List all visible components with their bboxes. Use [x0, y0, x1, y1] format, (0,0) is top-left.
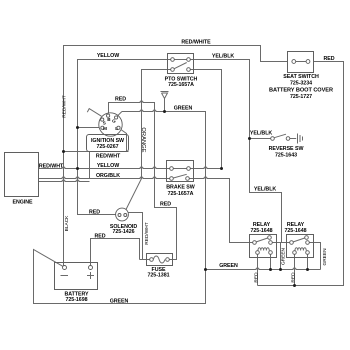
svg-text:ENGINE: ENGINE — [12, 200, 33, 206]
svg-text:GREEN: GREEN — [110, 298, 129, 304]
svg-text:725-0267: 725-0267 — [97, 144, 119, 150]
svg-text:YEL/BLK: YEL/BLK — [250, 130, 273, 136]
svg-text:L: L — [115, 126, 118, 131]
svg-text:YEL/BLK: YEL/BLK — [254, 187, 277, 193]
svg-text:SEAT SWITCH: SEAT SWITCH — [283, 74, 319, 80]
svg-text:725-1727: 725-1727 — [290, 94, 312, 100]
svg-text:M: M — [103, 126, 107, 131]
svg-text:RED: RED — [160, 202, 171, 208]
svg-text:725-1643: 725-1643 — [275, 152, 297, 158]
svg-text:YEL/BLK: YEL/BLK — [212, 53, 235, 59]
svg-text:YELLOW: YELLOW — [97, 163, 119, 169]
svg-text:725-1426: 725-1426 — [113, 229, 135, 235]
svg-text:RED/WHT: RED/WHT — [39, 163, 64, 169]
svg-text:RED: RED — [89, 210, 100, 216]
svg-text:BATTERY BOOT COVER: BATTERY BOOT COVER — [269, 88, 333, 94]
svg-text:725-1698: 725-1698 — [66, 297, 88, 303]
svg-text:YELLOW: YELLOW — [97, 53, 119, 59]
svg-text:RED: RED — [290, 272, 296, 283]
svg-text:G: G — [112, 119, 116, 124]
svg-text:RED: RED — [94, 234, 105, 240]
svg-text:725-1648: 725-1648 — [251, 228, 273, 234]
svg-text:REVERSE SW: REVERSE SW — [269, 146, 304, 152]
svg-text:BLACK: BLACK — [64, 215, 70, 232]
svg-text:RED: RED — [253, 272, 259, 283]
svg-text:BRAKE SW: BRAKE SW — [166, 184, 194, 190]
svg-text:725-3234: 725-3234 — [290, 81, 312, 87]
svg-text:GREEN: GREEN — [322, 248, 328, 266]
svg-text:S: S — [103, 120, 106, 125]
svg-text:725-1657A: 725-1657A — [168, 191, 194, 197]
svg-text:RED: RED — [115, 96, 126, 102]
svg-text:725-1381: 725-1381 — [148, 272, 170, 278]
svg-text:RED/WHITE: RED/WHITE — [181, 40, 211, 46]
svg-text:RED/WHT: RED/WHT — [144, 222, 150, 244]
svg-text:ORG/BLK: ORG/BLK — [96, 173, 120, 179]
svg-text:725-1648: 725-1648 — [285, 228, 307, 234]
svg-text:RED/WHT: RED/WHT — [96, 154, 121, 160]
svg-text:RED/WHT: RED/WHT — [61, 95, 67, 117]
svg-text:RED: RED — [323, 56, 334, 62]
svg-text:GREEN: GREEN — [219, 263, 238, 269]
svg-text:GREEN: GREEN — [174, 106, 193, 112]
svg-text:725-1657A: 725-1657A — [168, 82, 194, 88]
svg-text:GREEN: GREEN — [281, 247, 287, 265]
svg-text:IGNITION SW: IGNITION SW — [91, 138, 124, 144]
svg-text:ORANGE: ORANGE — [140, 127, 146, 152]
